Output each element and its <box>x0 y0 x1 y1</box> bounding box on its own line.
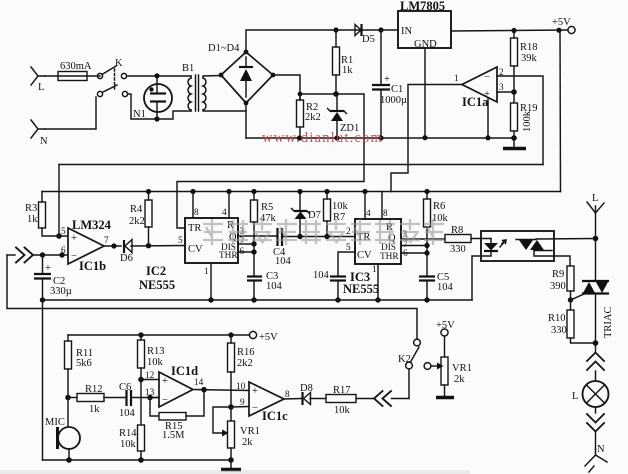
IC2 pin 6 THR <box>238 251 254 253</box>
connector remote jack <box>374 391 409 406</box>
op-amp U IC1d <box>145 364 204 407</box>
capacitor C6 104 <box>119 382 159 419</box>
resistor R11 5k6 <box>65 335 94 398</box>
resistor R7 10k <box>324 192 349 237</box>
resistor R6 10k <box>424 192 449 277</box>
wire +5V down to middle rail <box>559 30 562 192</box>
svg-text:R9: R9 <box>552 269 564 280</box>
bottom rail <box>43 459 232 461</box>
watermark gray company text <box>203 219 444 245</box>
svg-text:6: 6 <box>240 247 245 257</box>
svg-text:630mA: 630mA <box>60 61 92 72</box>
svg-text:390: 390 <box>550 281 566 292</box>
svg-text:+5V: +5V <box>436 320 455 331</box>
svg-text:R4: R4 <box>130 204 143 215</box>
wire LM7805 GND pin down <box>424 48 426 138</box>
svg-text:VR1: VR1 <box>240 426 260 437</box>
svg-text:+5V: +5V <box>552 17 571 28</box>
resistor R9 390 <box>550 266 574 300</box>
svg-text:6: 6 <box>403 249 408 259</box>
svg-text:R12: R12 <box>85 384 103 395</box>
svg-text:L: L <box>572 391 578 402</box>
optocoupler box <box>481 231 554 261</box>
wire input down to rail B <box>6 255 8 308</box>
svg-text:10k: 10k <box>334 405 351 416</box>
IC2 pin 3 output <box>238 235 277 237</box>
svg-text:CV: CV <box>188 244 203 255</box>
rail 2 (+5V distribution) <box>42 191 561 193</box>
svg-text:4: 4 <box>366 209 371 219</box>
wire IC1d pin12 <box>141 379 159 381</box>
resistor R8 330 <box>445 225 491 255</box>
svg-text:1k: 1k <box>27 214 38 225</box>
wire N terminal to switch pole2 <box>45 97 96 129</box>
svg-text:R5: R5 <box>261 202 273 213</box>
neon lamp N1 <box>133 78 172 120</box>
connector below lamp <box>587 407 604 449</box>
resistor R3 1k <box>25 192 68 237</box>
svg-text:IC1d: IC1d <box>171 364 198 378</box>
wire pole1 to transformer primary <box>127 75 192 77</box>
svg-text:1.5M: 1.5M <box>162 430 185 441</box>
svg-text:R8: R8 <box>451 225 463 236</box>
resistor R2 2k2 <box>297 94 321 138</box>
capacitor CV 104 <box>313 270 346 300</box>
wire IC1d output <box>193 390 249 391</box>
node R18/R19 junction pin3 <box>511 89 517 95</box>
IC3 pin 7 DIS <box>401 245 427 247</box>
svg-text:THR: THR <box>219 251 238 261</box>
IC3 pin 3 output <box>401 238 445 240</box>
svg-text:4: 4 <box>222 208 227 218</box>
resistor R10 330 <box>548 300 596 343</box>
svg-text:1k: 1k <box>89 404 100 415</box>
wire IC1a output pin1 <box>391 85 462 192</box>
wire IC1b out <box>104 245 121 247</box>
wire bridge right vertex to sense divider <box>273 75 300 100</box>
svg-text:−: − <box>71 251 77 262</box>
switch K pole 2 <box>97 85 127 97</box>
svg-text:10k: 10k <box>332 201 349 212</box>
regulator U LM7805 <box>398 0 451 50</box>
TRIAC <box>582 281 614 343</box>
svg-text:C6: C6 <box>119 382 131 393</box>
svg-text:VR1: VR1 <box>452 363 472 374</box>
capacitor C2 330u <box>34 255 72 300</box>
lamp L <box>572 381 609 407</box>
rail 1 (reference line) <box>59 164 543 166</box>
svg-text:NE555: NE555 <box>343 282 379 296</box>
svg-text:10k: 10k <box>120 439 137 450</box>
svg-text:+: + <box>384 74 390 85</box>
wire rail1 to IC1b pin5 <box>58 165 60 237</box>
terminal +5V right <box>436 320 455 336</box>
resistor R19 100k <box>511 103 538 138</box>
resistor R4 2k2 <box>129 192 152 246</box>
capacitor C5 104 <box>419 272 454 300</box>
fuse 630mA <box>45 61 100 81</box>
svg-text:IC2: IC2 <box>146 264 166 278</box>
svg-text:1: 1 <box>372 265 377 275</box>
resistor R14 10k <box>119 425 145 460</box>
svg-text:R7: R7 <box>333 212 345 223</box>
svg-text:104: 104 <box>266 281 283 292</box>
ground bottom rail <box>221 460 241 470</box>
terminal N (AC neutral input) <box>31 120 48 147</box>
svg-text:K2: K2 <box>398 354 411 365</box>
raw negative rail <box>246 137 516 139</box>
svg-text:5: 5 <box>346 243 351 253</box>
op-amp U IC1b <box>61 218 112 273</box>
svg-text:K: K <box>115 58 123 69</box>
+5V rail bottom section <box>68 334 250 336</box>
zener D7 <box>292 192 321 237</box>
IC3 pin 8 <box>381 192 383 220</box>
svg-text:330: 330 <box>450 244 466 255</box>
switch K pole 1 <box>97 58 126 90</box>
scan smear <box>0 470 470 474</box>
svg-text:5k6: 5k6 <box>76 358 92 369</box>
IC3 pin 1 <box>377 264 379 300</box>
svg-text:+: + <box>71 233 77 244</box>
resistor R15 1.5M feedback <box>150 390 204 441</box>
svg-text:CV: CV <box>357 250 372 261</box>
svg-text:D6: D6 <box>120 253 133 264</box>
svg-text:2: 2 <box>346 227 351 237</box>
triac gate wire <box>571 294 585 300</box>
ground below VR1 right <box>436 396 454 399</box>
potentiometer VR1 (left) <box>213 407 260 460</box>
IC3 pin 4 <box>364 192 366 220</box>
svg-text:L: L <box>38 82 44 93</box>
diode D8 <box>300 383 313 405</box>
svg-text:6: 6 <box>61 246 66 256</box>
svg-text:N: N <box>597 444 605 455</box>
opto light arrow <box>500 240 506 247</box>
IC2 pin 1 <box>210 263 212 300</box>
svg-text:IN: IN <box>401 26 412 37</box>
IC2 pin 4 <box>228 192 230 219</box>
timer U IC2 NE555 <box>139 218 238 292</box>
svg-text:R3: R3 <box>25 203 37 214</box>
svg-text:10k: 10k <box>147 357 164 368</box>
svg-text:+: + <box>162 376 168 387</box>
svg-text:R16: R16 <box>237 347 255 358</box>
sense line to IC2 TR <box>177 94 364 228</box>
wire D6 to IC2 CV <box>131 245 185 248</box>
svg-text:D1~D4: D1~D4 <box>208 43 240 54</box>
resistor R18 39k <box>511 30 538 103</box>
connector input jack <box>7 248 68 263</box>
svg-text:D5: D5 <box>362 34 375 45</box>
svg-text:MIC: MIC <box>45 417 65 428</box>
switch K2 <box>398 339 420 398</box>
svg-text:D8: D8 <box>300 383 313 394</box>
node N1 bottom <box>154 116 159 121</box>
terminal L (AC live input) <box>31 67 45 93</box>
svg-text:1000µ: 1000µ <box>380 95 407 106</box>
svg-text:100k: 100k <box>522 110 533 132</box>
svg-text:N1: N1 <box>133 109 146 120</box>
IC2 pin 8 <box>192 192 194 219</box>
svg-text:−: − <box>252 403 258 414</box>
svg-text:2k2: 2k2 <box>305 112 321 123</box>
svg-text:D7: D7 <box>308 210 321 221</box>
terminal L lamp side <box>587 193 604 213</box>
svg-text:5: 5 <box>178 236 183 246</box>
svg-text:IC1c: IC1c <box>262 409 288 423</box>
svg-text:+: + <box>252 386 258 397</box>
rail A signal common <box>43 299 473 301</box>
svg-text:−: − <box>162 395 168 406</box>
wire N1 bottom to primary bottom <box>157 111 191 119</box>
node C1 top <box>378 27 383 32</box>
svg-text:R6: R6 <box>433 201 445 212</box>
transformer B1 <box>182 63 246 111</box>
terminal N lamp side <box>585 444 607 472</box>
capacitor C1 1000u <box>372 30 407 138</box>
terminal +5V bottom <box>249 331 278 343</box>
wire pole2 to N1 bottom loop <box>128 94 158 119</box>
svg-text:R14: R14 <box>119 428 137 439</box>
svg-text:5: 5 <box>61 227 66 237</box>
svg-text:L: L <box>592 193 598 204</box>
svg-text:TRIAC: TRIAC <box>603 307 614 339</box>
node at N1 top <box>154 73 159 78</box>
resistor R12 1k <box>68 384 126 415</box>
bridge rectifier D1~D4 <box>208 43 275 105</box>
svg-text:8: 8 <box>194 208 199 218</box>
wire IC1c pin9 <box>231 406 249 409</box>
wire IC1a pin3 <box>497 91 514 93</box>
IC3 pin 6 THR <box>401 252 427 254</box>
connector above lamp <box>587 343 604 381</box>
svg-text:R10: R10 <box>548 313 566 324</box>
wire bridge top to DC+ line <box>246 30 398 52</box>
svg-text:9: 9 <box>240 398 245 408</box>
op-amp U IC1c <box>236 382 290 423</box>
svg-text:R13: R13 <box>147 346 165 357</box>
diode D6 <box>120 240 133 265</box>
resistor R16 2k2 <box>228 335 255 421</box>
resistor R1 1k <box>333 30 354 94</box>
svg-text:104: 104 <box>313 270 330 281</box>
wire LM7805 output to +5V <box>451 30 568 31</box>
svg-text:+: + <box>45 263 51 274</box>
opto LED <box>472 239 498 301</box>
svg-text:www.dianlut.com: www.dianlut.com <box>262 130 383 146</box>
capacitor C3 104 <box>247 271 283 300</box>
svg-text:TR: TR <box>188 223 201 234</box>
opto phototriac <box>516 239 595 267</box>
wire rail A left down to bottom rail <box>42 300 44 460</box>
svg-text:7: 7 <box>104 236 109 246</box>
terminal +5V <box>552 17 575 34</box>
resistor R17 10k <box>310 385 373 416</box>
svg-text:NE555: NE555 <box>139 278 175 292</box>
svg-text:IC1a: IC1a <box>462 95 489 109</box>
microphone MIC <box>45 398 80 461</box>
rail B input return <box>7 309 417 340</box>
svg-text:10: 10 <box>236 382 246 392</box>
svg-text:B1: B1 <box>182 63 194 74</box>
capacitor C4 104 <box>273 228 292 267</box>
svg-text:+5V: +5V <box>259 332 278 343</box>
svg-text:2k: 2k <box>454 374 465 385</box>
svg-text:1: 1 <box>204 267 209 277</box>
ground below R19 <box>503 138 526 149</box>
node R1 top <box>333 27 338 32</box>
resistor R5 47k <box>251 192 277 277</box>
svg-text:330: 330 <box>551 325 567 336</box>
svg-text:R17: R17 <box>333 385 351 396</box>
wire IC1d pin13 <box>150 397 159 399</box>
svg-text:THR: THR <box>380 252 399 262</box>
svg-text:13: 13 <box>145 388 155 398</box>
wire C4 to IC3 TR <box>282 236 355 238</box>
svg-text:2k2: 2k2 <box>237 358 253 369</box>
svg-text:104: 104 <box>275 256 292 267</box>
svg-text:R18: R18 <box>520 42 538 53</box>
potentiometer VR1 (right) <box>431 336 472 396</box>
svg-text:−: − <box>484 72 490 83</box>
op-amp U IC1a <box>454 67 504 109</box>
svg-text:14: 14 <box>194 378 204 388</box>
wire IC1a V- stub <box>487 99 489 138</box>
svg-text:C1: C1 <box>391 84 403 95</box>
zener ZD1 <box>328 94 360 138</box>
wire IC1c out <box>284 398 301 401</box>
node R1 bottom / sense node <box>333 91 339 97</box>
svg-text:1: 1 <box>454 74 459 84</box>
svg-text:10k: 10k <box>432 213 449 224</box>
svg-text:2k2: 2k2 <box>129 216 145 227</box>
svg-text:330µ: 330µ <box>50 286 72 297</box>
IC2 pin 7 DIS <box>238 243 254 245</box>
contact to VR1 wiper <box>424 363 431 370</box>
svg-text:104: 104 <box>437 282 454 293</box>
timer U IC3 NE555 <box>343 219 401 296</box>
IC3 pin 5 CV wire <box>338 252 355 276</box>
resistor R13 10k <box>138 335 165 425</box>
svg-text:1k: 1k <box>342 65 353 76</box>
node R19 bottom <box>511 135 517 141</box>
svg-text:2k: 2k <box>242 437 253 448</box>
wire L terminal down <box>595 213 597 281</box>
svg-text:104: 104 <box>119 408 136 419</box>
wire IC1a pin2 feedback <box>497 76 543 165</box>
svg-text:39k: 39k <box>521 53 538 64</box>
diode D5 <box>355 24 375 45</box>
svg-text:8: 8 <box>383 209 388 219</box>
svg-text:LM324: LM324 <box>72 218 112 232</box>
svg-text:LM7805: LM7805 <box>400 0 445 13</box>
wire sense node to R2 <box>300 93 336 95</box>
wire bridge bottom to raw negative rail <box>245 103 247 138</box>
svg-text:N: N <box>40 136 48 147</box>
svg-text:IC1b: IC1b <box>79 259 106 273</box>
